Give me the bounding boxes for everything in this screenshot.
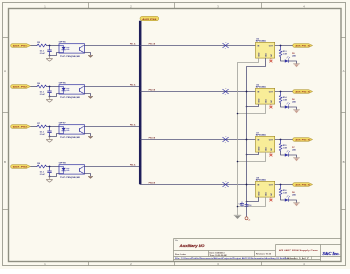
- svg-text:OPT7: OPT7: [59, 123, 67, 125]
- wire: [47, 126, 60, 128]
- wire LED to ground: [289, 155, 297, 158]
- ground: [49, 137, 51, 140]
- svg-text:1.0K: 1.0K: [283, 53, 288, 55]
- wire ADJ pin to gray rail: [238, 197, 266, 206]
- wire bus to regulator: [140, 91, 255, 93]
- opto emission arrows: [66, 168, 68, 170]
- wire ADJ pin to gray rail: [238, 152, 266, 161]
- capacitor C11: [49, 46, 51, 50]
- opto phototransistor of OPT7: [79, 128, 81, 132]
- wire GND pin to supply rail: [247, 197, 259, 201]
- node junction: [280, 91, 282, 93]
- node junction: [280, 45, 282, 47]
- zone row ticks left: [3, 37, 9, 39]
- node junction: [280, 139, 282, 141]
- LED emission arrows: [287, 103, 288, 104]
- node junction: [246, 201, 248, 203]
- wire resistor to LED: [281, 152, 285, 156]
- no-connect X on NC pin: [270, 58, 272, 60]
- inline marker X: [223, 89, 229, 94]
- wire resistor to LED: [281, 104, 285, 108]
- LED D8: [285, 198, 289, 201]
- bus vertical: [139, 21, 142, 185]
- gray rail (ground) vertical: [237, 63, 239, 216]
- zone column ticks bottom: [88, 262, 90, 266]
- svg-text:1.0K: 1.0K: [283, 192, 288, 194]
- capacitor C12: [49, 87, 51, 91]
- wire LED to ground: [289, 61, 297, 64]
- port AUX_PS3_IO: [293, 138, 313, 142]
- supply rail vertical: [246, 67, 248, 217]
- node junction: [49, 136, 51, 138]
- no-connect X on NC pin: [270, 152, 272, 154]
- wire to opto cathode: [50, 134, 60, 137]
- port AUX_PS1: [11, 44, 31, 48]
- wire opto output to bus: [85, 126, 141, 128]
- ground: [293, 202, 300, 204]
- opto LED of OPT7: [59, 126, 64, 128]
- regulator U6 BP5045 body: [256, 88, 275, 104]
- svg-text:OPT8: OPT8: [59, 163, 67, 165]
- wire GND pin to supply rail: [247, 104, 259, 106]
- ground: [88, 95, 93, 97]
- svg-text:0.1uF: 0.1uF: [40, 134, 46, 136]
- resistor R13 1.0K: [280, 46, 282, 50]
- port AUX_PS2_IO: [293, 90, 313, 94]
- opto phototransistor of OPT6: [79, 88, 81, 92]
- svg-text:GND: GND: [258, 52, 260, 57]
- junction on bus: [139, 126, 141, 128]
- junction on bus: [139, 166, 141, 168]
- wire emitter to ground: [85, 53, 91, 56]
- wire emitter to ground: [85, 134, 91, 137]
- svg-text:LED: LED: [292, 149, 297, 151]
- resistor R7: [37, 125, 47, 128]
- node junction: [49, 166, 51, 168]
- wire opto output to bus: [85, 45, 141, 47]
- wire opto output to bus: [85, 166, 141, 168]
- zone row ticks right: [341, 37, 346, 39]
- regulator U7 BP5045 body: [256, 136, 275, 152]
- svg-text:B: B: [343, 160, 345, 164]
- wire: [31, 126, 38, 128]
- opto phototransistor of OPT5: [79, 47, 81, 51]
- capacitor C13: [49, 127, 51, 131]
- svg-text:Revision: V1.00: Revision: V1.00: [256, 254, 271, 256]
- svg-text:+5: +5: [248, 219, 250, 221]
- opto LED of OPT5: [59, 45, 64, 47]
- wire: [31, 166, 38, 168]
- node junction: [246, 106, 248, 108]
- port AUX_PS4_IO: [293, 183, 313, 187]
- title block frame: [173, 239, 175, 262]
- zone column ticks top: [88, 3, 90, 9]
- svg-text:0.1uF: 0.1uF: [40, 53, 46, 55]
- port AUX_PS1_IO: [293, 44, 313, 48]
- svg-text:TLP-785(GB,SE: TLP-785(GB,SE: [60, 137, 81, 139]
- node junction: [49, 96, 51, 98]
- port AUX_PS2: [11, 85, 31, 89]
- optocoupler OPT5 body: [59, 44, 85, 53]
- svg-text:Auxiliary I/O: Auxiliary I/O: [178, 244, 205, 248]
- svg-text:GND: GND: [258, 191, 260, 196]
- resistor R16 1.0K: [280, 185, 282, 189]
- ground: [49, 177, 51, 180]
- wire GND pin to gray rail: [238, 58, 259, 62]
- opto emission arrows: [66, 47, 68, 49]
- junction on bus: [139, 45, 141, 47]
- opto phototransistor of OPT8: [79, 168, 81, 172]
- LED emission arrows: [287, 196, 288, 197]
- inline marker X: [223, 182, 229, 187]
- wire ADJ pin to gray rail: [238, 104, 266, 113]
- capacitor C15: [241, 202, 243, 204]
- junction on bus: [139, 139, 141, 141]
- ground: [88, 54, 93, 56]
- no-connect X on NC pin: [270, 197, 272, 199]
- svg-text:TLP-785(GB,SE: TLP-785(GB,SE: [60, 97, 81, 99]
- svg-text:0.1uF: 0.1uF: [40, 94, 46, 96]
- capacitor C16: [246, 203, 248, 204]
- wire: [31, 86, 38, 88]
- svg-text:GND: GND: [258, 98, 260, 103]
- node junction: [280, 184, 282, 186]
- wire GND pin to supply rail: [247, 152, 259, 154]
- wire resistor to LED: [281, 58, 285, 62]
- resistor R5: [37, 44, 47, 47]
- node junction: [246, 154, 248, 156]
- optocoupler OPT6 body: [59, 85, 85, 94]
- svg-text:LED: LED: [292, 101, 297, 103]
- resistor R6: [37, 85, 47, 88]
- ground: [49, 56, 51, 59]
- node junction: [49, 45, 51, 47]
- wire opto output to bus: [85, 86, 141, 88]
- svg-text:TLP-785(GB,SE: TLP-785(GB,SE: [60, 56, 81, 58]
- junctions gray rail at stub joins: [237, 113, 239, 115]
- wire to regulator: [222, 184, 256, 186]
- inline marker X: [223, 137, 229, 142]
- wire emitter to ground: [85, 174, 91, 177]
- svg-text:1.0K: 1.0K: [283, 147, 288, 149]
- wire LED to ground: [289, 107, 297, 110]
- port AUX_PS3: [11, 125, 31, 129]
- svg-text:A: A: [343, 69, 345, 73]
- wire: [31, 45, 38, 47]
- svg-text:B: B: [4, 160, 6, 164]
- LED D6: [285, 105, 289, 108]
- node junction: [49, 176, 51, 178]
- opto emission arrows: [66, 88, 68, 90]
- svg-text:S&C Inc.: S&C Inc.: [323, 251, 340, 256]
- wire: [47, 45, 60, 47]
- opto emission arrows: [66, 128, 68, 130]
- wire bus elbow to row4 regulator: [140, 184, 221, 186]
- wire to opto cathode: [50, 94, 60, 97]
- LED D5: [285, 59, 289, 62]
- wire: [47, 86, 60, 88]
- node junction: [49, 55, 51, 57]
- ground: [293, 157, 300, 159]
- ground: [88, 135, 93, 137]
- wire resistor to LED: [281, 197, 285, 201]
- capacitor C14: [49, 167, 51, 171]
- wire OUT to port: [275, 45, 293, 47]
- svg-text:OPT6: OPT6: [59, 83, 67, 85]
- wire bus to regulator: [140, 45, 255, 47]
- LED emission arrows: [287, 57, 288, 58]
- no-connect X on NC pin: [270, 104, 272, 106]
- svg-text:0.1uF: 0.1uF: [40, 174, 46, 176]
- svg-text:LED: LED: [292, 194, 297, 196]
- svg-text:LED: LED: [292, 55, 297, 57]
- wire LED to ground: [289, 200, 297, 203]
- wire to opto cathode: [50, 53, 60, 56]
- ground gray rail: [234, 214, 241, 216]
- ground: [293, 109, 300, 111]
- LED D7: [285, 153, 289, 156]
- resistor R14 1.0K: [280, 92, 282, 96]
- node junction: [49, 126, 51, 128]
- optocoupler OPT8 body: [59, 165, 85, 174]
- wire emitter to ground: [85, 94, 91, 97]
- node junction: [49, 86, 51, 88]
- optocoupler OPT7 body: [59, 125, 85, 134]
- wire OUT to port: [275, 91, 293, 93]
- wire OUT to port: [275, 139, 293, 141]
- ground: [293, 63, 300, 65]
- regulator U8 BP5045 body: [256, 181, 275, 197]
- ground: [49, 97, 51, 100]
- wire: [47, 166, 60, 168]
- svg-text:OPT5: OPT5: [59, 42, 67, 44]
- wire OUT to port: [275, 184, 293, 186]
- svg-text:C15: C15: [239, 204, 242, 206]
- svg-text:A: A: [4, 69, 6, 73]
- resistor R15 1.0K: [280, 140, 282, 144]
- junction on bus: [139, 91, 141, 93]
- regulator U5 BP5045 body: [256, 42, 275, 58]
- svg-text:GND: GND: [258, 146, 260, 151]
- ground: [88, 175, 93, 177]
- harness label AUX PS: [140, 16, 159, 20]
- wire bus to regulator: [140, 139, 255, 141]
- wire ADJ pin to supply rail: [247, 58, 266, 66]
- wire to opto cathode: [50, 174, 60, 177]
- svg-text:1.0K: 1.0K: [283, 99, 288, 101]
- LED emission arrows: [287, 151, 288, 152]
- power symbol on supply rail: [245, 217, 248, 220]
- port AUX_PS4: [11, 165, 31, 169]
- junction on bus: [139, 86, 141, 88]
- junctions supply rail at row wires: [246, 91, 248, 93]
- opto LED of OPT6: [59, 86, 64, 88]
- opto LED of OPT8: [59, 166, 64, 168]
- inline marker X: [223, 43, 229, 48]
- svg-text:TLP-785(GB,SE: TLP-785(GB,SE: [60, 177, 81, 179]
- resistor R8: [37, 165, 47, 168]
